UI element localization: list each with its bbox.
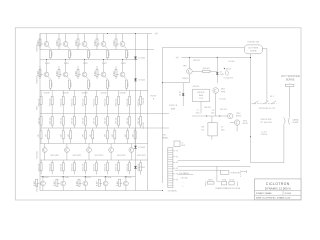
resistor RE9 emitter [105, 77, 111, 91]
resistor RE8 emitter [86, 77, 92, 91]
svg-text:C9: C9 [221, 127, 223, 129]
wire bias box down [200, 102, 202, 114]
svg-text:2SC5200: 2SC5200 [124, 177, 131, 179]
resistor RE2 emitter [67, 46, 73, 59]
svg-text:4148: 4148 [220, 74, 224, 76]
svg-text:PAINEL: PAINEL [162, 136, 168, 139]
svg-text:OUT WOOFER: OUT WOOFER [281, 75, 300, 78]
svg-text:R49: R49 [201, 127, 204, 129]
svg-text:470p: 470p [196, 113, 200, 115]
svg-text:+V: +V [176, 57, 179, 60]
terminal borne out [285, 84, 294, 86]
svg-text:RL 1: RL 1 [270, 96, 274, 98]
pin 3 CN1 [173, 162, 178, 164]
svg-text:P3: P3 [176, 162, 178, 164]
svg-text:R 4K7: R 4K7 [75, 40, 77, 45]
rail bus5 to driver [40, 127, 169, 129]
svg-text:0R22: 0R22 [128, 52, 130, 57]
capacitor C8 100n [211, 110, 220, 116]
junction dot rail fuse [250, 57, 251, 58]
svg-text:10R 1W: 10R 1W [138, 117, 140, 124]
resistor RE10 emitter [124, 77, 130, 91]
transistor Q8 output PNP [82, 60, 87, 77]
capacitor C5 electrolytic [223, 71, 233, 80]
svg-text:R45 4K7: R45 4K7 [203, 68, 210, 70]
svg-text:R40 470: R40 470 [143, 98, 145, 104]
resistor R25 bank4 [83, 114, 87, 129]
transistor Q15 driver NPN [129, 144, 134, 161]
svg-text:10R 1W: 10R 1W [105, 117, 107, 124]
left bus wire [39, 34, 41, 191]
resistor RB6 base [37, 66, 43, 79]
resistor R45 4K7 [192, 68, 217, 72]
resistor R49 bank6 [127, 160, 131, 175]
svg-text:0R22: 0R22 [37, 106, 39, 110]
svg-text:0R22: 0R22 [52, 52, 54, 57]
resistor R47 bank6 [105, 160, 109, 175]
wire right section left rail [161, 48, 163, 184]
svg-text:4K7: 4K7 [132, 134, 134, 137]
svg-text:R 4K7: R 4K7 [56, 40, 58, 45]
resistor RB7 base [56, 66, 62, 79]
svg-text:4K7: 4K7 [112, 134, 114, 137]
svg-text:R 4K7: R 4K7 [113, 71, 115, 76]
svg-text:R 4K7: R 4K7 [102, 63, 107, 65]
svg-text:0R22: 0R22 [90, 52, 92, 57]
transformer paren left [204, 182, 207, 187]
net +V driver rail [182, 57, 251, 59]
resistor R1 base [37, 39, 43, 50]
resistor R34 bank5 [68, 128, 72, 144]
svg-text:PROTECAO DC OUT: PROTECAO DC OUT [259, 107, 275, 110]
resistor R17 bank3 [105, 91, 109, 114]
svg-text:10R 1W: 10R 1W [49, 117, 51, 124]
svg-text:D2 5402: D2 5402 [138, 80, 145, 82]
relay RL1 contact [252, 96, 277, 104]
svg-text:D5: D5 [179, 92, 181, 94]
svg-text:R 4K7: R 4K7 [97, 181, 99, 186]
svg-text:R 4K7: R 4K7 [113, 40, 115, 45]
transistor Q19 output NPN [103, 177, 108, 191]
transistor Q7 output PNP [63, 60, 68, 77]
transistor Q13 driver NPN [87, 144, 92, 161]
transistor Q1 output PNP [40, 34, 49, 47]
resistor R14 bank3 [71, 91, 75, 114]
resistor RE3 emitter [86, 46, 92, 59]
svg-text:NOME: CICLOTRON IND - DYNAMIC: NOME: CICLOTRON IND - DYNAMIC 12.000 [256, 196, 290, 199]
svg-text:PONTO B: PONTO B [169, 105, 178, 107]
junction dots row4 bus [42, 176, 126, 177]
wire TR9 base stub [162, 82, 189, 84]
svg-text:0R22 5W: 0R22 5W [138, 98, 140, 106]
resistor R11 bank3 [38, 91, 42, 114]
svg-text:R41 470: R41 470 [143, 122, 145, 128]
resistor R26 bank4 [94, 114, 98, 129]
svg-text:4K7: 4K7 [105, 134, 107, 137]
svg-text:PONTE RET: PONTE RET [230, 172, 240, 174]
svg-text:R 4K7: R 4K7 [54, 181, 56, 186]
svg-text:2SC5200: 2SC5200 [62, 177, 69, 179]
transistor Q10 output PNP [120, 60, 125, 77]
svg-text:0R22: 0R22 [52, 82, 54, 87]
fuse F2 box [221, 179, 227, 185]
resistor RE1 emitter [48, 46, 54, 59]
wire fuse right [262, 49, 267, 102]
svg-text:0R22: 0R22 [71, 82, 73, 87]
svg-text:D8 15V: D8 15V [226, 68, 232, 70]
svg-text:R 4K7: R 4K7 [76, 181, 78, 186]
svg-text:10R 1W: 10R 1W [38, 117, 40, 124]
svg-text:0R22 5W: 0R22 5W [60, 163, 62, 171]
resistor R19 bank3 [127, 91, 131, 114]
junction dot rail top [135, 33, 136, 34]
resistor RB20 base [117, 179, 123, 186]
svg-text:FUSIVEL 10A: FUSIVEL 10A [248, 41, 260, 44]
wire CN1 pin to relay net [178, 160, 240, 162]
transistor TR11 TIP41 [213, 88, 225, 116]
rail bus3 [40, 90, 148, 92]
svg-text:D3 5402: D3 5402 [138, 147, 145, 149]
svg-text:0R22 0R22: 0R22 0R22 [137, 155, 146, 157]
svg-text:0R22: 0R22 [128, 82, 130, 87]
svg-text:AC POWER: AC POWER [249, 46, 259, 49]
svg-text:BD135: BD135 [243, 123, 248, 125]
svg-text:CN 1: CN 1 [162, 135, 166, 137]
rail bus7 [40, 159, 148, 161]
svg-text:100n: 100n [221, 129, 225, 131]
junction dots bus2 [46, 59, 123, 60]
svg-text:1N4148: 1N4148 [120, 93, 126, 95]
svg-text:10R 1W: 10R 1W [94, 117, 96, 124]
svg-text:0R22 5W: 0R22 5W [71, 163, 73, 171]
svg-text:0R22 5W: 0R22 5W [116, 163, 118, 171]
svg-text:R 4K7: R 4K7 [117, 181, 119, 186]
wire speaker return [251, 125, 284, 163]
resistor RB18 base [76, 179, 82, 186]
svg-text:R 4K7: R 4K7 [83, 63, 88, 65]
resistor R31 bank5 [38, 128, 42, 144]
svg-text:1N4148: 1N4148 [44, 93, 50, 95]
svg-text:R 4K7: R 4K7 [56, 71, 58, 76]
resistor R29 bank4 [127, 114, 131, 129]
svg-text:D1 5402: D1 5402 [138, 58, 145, 60]
transistor Q18 output NPN [83, 177, 88, 191]
svg-text:10R 1W: 10R 1W [60, 117, 62, 124]
svg-text:0R22 5W: 0R22 5W [94, 163, 96, 171]
svg-text:10R 1W: 10R 1W [127, 117, 129, 124]
svg-text:0R22: 0R22 [109, 52, 111, 57]
svg-text:0R22 5W: 0R22 5W [105, 163, 107, 171]
resistor R12 bank3 [49, 91, 53, 114]
resistor R27 bank4 [105, 114, 109, 129]
wire CN1 pin to supply net [178, 165, 251, 167]
resistor R20 bank3 [138, 91, 142, 114]
terminal AC POWER [245, 45, 263, 54]
svg-text:CICLOTRON: CICLOTRON [266, 182, 290, 186]
svg-text:0R22 5W: 0R22 5W [127, 98, 129, 106]
svg-text:BORNE: BORNE [250, 51, 257, 53]
transistor TR13 BD135 [230, 120, 248, 132]
junction dot bottom rail join [162, 190, 163, 191]
resistor R41 bank6 [38, 160, 42, 175]
resistor R24 bank4 [71, 114, 75, 129]
svg-text:10R 1W: 10R 1W [116, 117, 118, 124]
wire to transformer row [217, 166, 221, 181]
resistor R44 bank6 [71, 160, 75, 175]
svg-text:R47 47K: R47 47K [220, 109, 227, 111]
rail row1 emitter bus [40, 49, 154, 51]
transistor Q2 output PNP [59, 34, 68, 47]
svg-text:AJUSTE: AJUSTE [198, 91, 206, 94]
resistor R33 bank5 [60, 128, 64, 144]
svg-text:0R22: 0R22 [90, 82, 92, 87]
svg-text:1N4148: 1N4148 [101, 93, 107, 95]
svg-text:0R22: 0R22 [71, 52, 73, 57]
svg-text:CH LIGA: CH LIGA [181, 176, 189, 179]
wire AC mains [175, 169, 220, 171]
ic U2 above CN1 [174, 141, 185, 147]
svg-text:4K7: 4K7 [68, 134, 70, 137]
svg-text:DYNAMIC 12.000 N: DYNAMIC 12.000 N [265, 186, 291, 190]
pin 4 CN1 [173, 168, 178, 170]
svg-text:D4 5402: D4 5402 [138, 167, 145, 169]
svg-text:BD136: BD136 [236, 115, 241, 117]
svg-text:R48 10K: R48 10K [204, 107, 211, 109]
resistor R45 bank6 [83, 160, 87, 175]
resistor R28 bank4 [116, 114, 120, 129]
resistor RB8 base [75, 66, 81, 79]
connector CN1 [168, 148, 173, 188]
resistor RB17 base [54, 179, 60, 186]
svg-text:R 4K7: R 4K7 [37, 71, 39, 76]
capacitor C7 470p [196, 110, 208, 116]
diode D7 1N4148 [216, 58, 224, 83]
svg-text:C6 100n: C6 100n [228, 61, 234, 63]
svg-text:0R22 0R22: 0R22 0R22 [50, 155, 59, 157]
pin 1 CN1 [173, 151, 178, 153]
rail bus4 to driver [40, 113, 169, 115]
diode D2 1N5402 [134, 78, 145, 81]
resistor RB16 base [34, 179, 40, 186]
svg-text:CN2 PAINEL: CN2 PAINEL [179, 172, 189, 175]
svg-text:R 4K7: R 4K7 [75, 71, 77, 76]
transformer paren right [236, 182, 239, 187]
label OUT WOOFER [281, 75, 300, 84]
svg-text:4K7: 4K7 [125, 134, 127, 137]
fuse F3 box [229, 179, 235, 185]
svg-text:BD135: BD135 [183, 78, 189, 80]
svg-text:0R22 5W: 0R22 5W [127, 163, 129, 171]
svg-text:4K7: 4K7 [60, 134, 62, 137]
junction dot bus4 column [107, 33, 108, 34]
resistor R39 bank5 [125, 128, 129, 144]
rail bus6 [40, 143, 148, 145]
transistor Q9 output PNP [101, 60, 106, 77]
pin 5 CN1 [173, 174, 178, 176]
wire out positive [289, 87, 291, 118]
resistor R37 bank5 [105, 128, 109, 144]
title block [255, 179, 302, 200]
resistor R36 bank5 [90, 128, 94, 144]
svg-text:4K7: 4K7 [83, 134, 85, 137]
resistor R40 bank5 [132, 128, 136, 144]
svg-text:0R22: 0R22 [109, 82, 111, 87]
svg-text:+V: +V [155, 32, 159, 36]
svg-text:R 4K7: R 4K7 [45, 63, 50, 65]
resistor R48 bank6 [116, 160, 120, 175]
resistor R46 bank6 [94, 160, 98, 175]
resistor RE5 emitter [124, 46, 130, 59]
svg-text:75-1010: 75-1010 [285, 193, 292, 195]
resistor RB10 base [113, 66, 119, 79]
resistor RB9 base [94, 66, 100, 79]
junction dot driver rail 2 [217, 57, 218, 58]
svg-text:1N4148: 1N4148 [82, 93, 88, 95]
transistor TR12 BD136 [228, 113, 242, 119]
wire mid bias node [192, 115, 228, 117]
wire CN1 pin bottom [178, 174, 194, 176]
svg-text:TR9: TR9 [183, 66, 187, 68]
svg-text:0R22 5W: 0R22 5W [116, 98, 118, 106]
diode D5 D6 bias [179, 83, 185, 106]
svg-text:0R22 5W: 0R22 5W [49, 163, 51, 171]
resistor R18 bank3 [116, 91, 120, 114]
svg-text:TRANSFORMADOR DE FORCA: TRANSFORMADOR DE FORCA [215, 187, 241, 190]
transistor Q4 output PNP [97, 34, 106, 47]
svg-text:4K7: 4K7 [46, 134, 48, 137]
svg-text:0R22 0R22: 0R22 0R22 [117, 155, 126, 157]
svg-text:4558: 4558 [181, 145, 185, 147]
resistor R13 bank3 [60, 91, 64, 114]
svg-text:R46 220: R46 220 [193, 86, 199, 88]
svg-text:2SC5200: 2SC5200 [37, 151, 39, 159]
resistor R21 bank4 [38, 114, 42, 129]
svg-text:4K7: 4K7 [90, 134, 92, 137]
svg-text:R 4K7: R 4K7 [94, 40, 96, 45]
svg-text:2SA1943: 2SA1943 [36, 44, 39, 51]
svg-text:0R22 5W: 0R22 5W [83, 98, 85, 106]
svg-text:0R22 5W: 0R22 5W [105, 98, 107, 106]
svg-text:C17 100n 250V: C17 100n 250V [260, 122, 273, 124]
diode D4 1N5402 [134, 166, 145, 169]
wire AC dashed stub [240, 171, 242, 177]
transistor Q16 output NPN [41, 177, 46, 191]
transistor Q17 output NPN [61, 177, 66, 191]
svg-text:0R22 5W: 0R22 5W [71, 98, 73, 106]
svg-text:P6: P6 [176, 179, 178, 181]
svg-text:D6: D6 [179, 95, 181, 97]
resistor R22 bank4 [49, 114, 53, 129]
terminal marks [181, 183, 184, 188]
svg-text:2SC5200: 2SC5200 [104, 177, 111, 179]
svg-text:R58 10R 10W: R58 10R 10W [261, 119, 272, 121]
bridge rectifier PONTE [220, 171, 240, 175]
wire +V to fuse [162, 47, 244, 49]
resistor RE7 emitter [67, 77, 73, 91]
svg-text:0R22 0R22: 0R22 0R22 [95, 155, 104, 157]
svg-text:10R 1W: 10R 1W [83, 117, 85, 124]
svg-text:2SC5200: 2SC5200 [84, 177, 91, 179]
junction dot out net [250, 136, 251, 137]
svg-text:R43 2K2: R43 2K2 [193, 60, 200, 62]
svg-text:R 4K7: R 4K7 [94, 71, 96, 76]
diode D3 1N5402 [134, 146, 145, 149]
resistor R30 bank4 [138, 114, 142, 129]
svg-text:100n: 100n [211, 113, 215, 115]
junction dot left rail [162, 82, 163, 83]
svg-text:C5 100p 1KV: C5 100p 1KV [223, 77, 233, 79]
net +V top rail [40, 33, 152, 35]
trimmer box AJUSTE BIAS [193, 89, 210, 101]
wire box vbe down [211, 136, 213, 140]
resistor R2 base [56, 39, 62, 50]
svg-text:R 4K7: R 4K7 [121, 63, 126, 65]
svg-text:2SC5200: 2SC5200 [41, 177, 48, 179]
tick transformer wire end [245, 170, 247, 173]
transistor Q11 driver NPN [42, 144, 47, 161]
resistor R4 base [94, 39, 100, 50]
transistor Q5 output PNP [116, 34, 125, 47]
wire mid rail vertical [147, 34, 149, 191]
svg-text:~ ~: ~ ~ [181, 183, 183, 185]
svg-text:4K7: 4K7 [38, 134, 40, 137]
page border frame [15, 28, 301, 200]
svg-text:2SC5200: 2SC5200 [37, 184, 39, 192]
svg-text:0R22 5W: 0R22 5W [38, 98, 40, 106]
svg-text:P2: P2 [176, 156, 178, 158]
svg-text:TIP41: TIP41 [221, 91, 226, 93]
svg-text:P4: P4 [176, 168, 178, 170]
net -V bottom rail [40, 190, 162, 192]
wire bias diode string [135, 34, 137, 191]
resistor R16 bank3 [94, 91, 98, 114]
svg-text:0R22 5W: 0R22 5W [49, 98, 51, 106]
box Vbe multiplier [201, 123, 224, 136]
svg-text:0R22 5W: 0R22 5W [83, 163, 85, 171]
resistor RE4 emitter [105, 46, 111, 59]
svg-text:BORNE: BORNE [286, 79, 295, 82]
svg-text:0R22 5W: 0R22 5W [94, 98, 96, 106]
label CN1 header [162, 135, 168, 140]
resistor R35 bank5 [83, 128, 87, 144]
svg-text:4R MIN: 4R MIN [292, 122, 299, 124]
wire transformer right [241, 171, 247, 173]
resistor RE6 emitter [48, 77, 54, 91]
resistor RB19 base [97, 179, 103, 186]
transistor Q6 output PNP [44, 60, 49, 77]
svg-text:2SA1943: 2SA1943 [36, 76, 39, 83]
relay RL2 box [207, 180, 214, 185]
pin 6 CN1 [173, 179, 178, 181]
svg-text:C10 47p: C10 47p [219, 99, 225, 101]
svg-text:0R22 5W: 0R22 5W [38, 163, 40, 171]
svg-text:C18 104: C18 104 [261, 134, 267, 136]
transistor TR9 BD135 [183, 58, 193, 83]
rail bus2 [40, 59, 138, 61]
pin 2 CN1 [173, 156, 178, 158]
resistor R50 bank6 [138, 160, 142, 175]
svg-text:1N4148: 1N4148 [63, 93, 69, 95]
svg-text:10R 1W: 10R 1W [71, 117, 73, 124]
svg-text:0R22 0R22: 0R22 0R22 [73, 155, 82, 157]
resistor R23 bank4 [60, 114, 64, 129]
svg-text:TR13: TR13 [243, 120, 247, 122]
resistor R32 bank5 [46, 128, 50, 144]
resistor R5 base [113, 39, 119, 50]
svg-text:CARGA: CARGA [292, 118, 299, 121]
svg-text:P1: P1 [176, 151, 178, 153]
diode D1 1N5402 [134, 57, 145, 60]
